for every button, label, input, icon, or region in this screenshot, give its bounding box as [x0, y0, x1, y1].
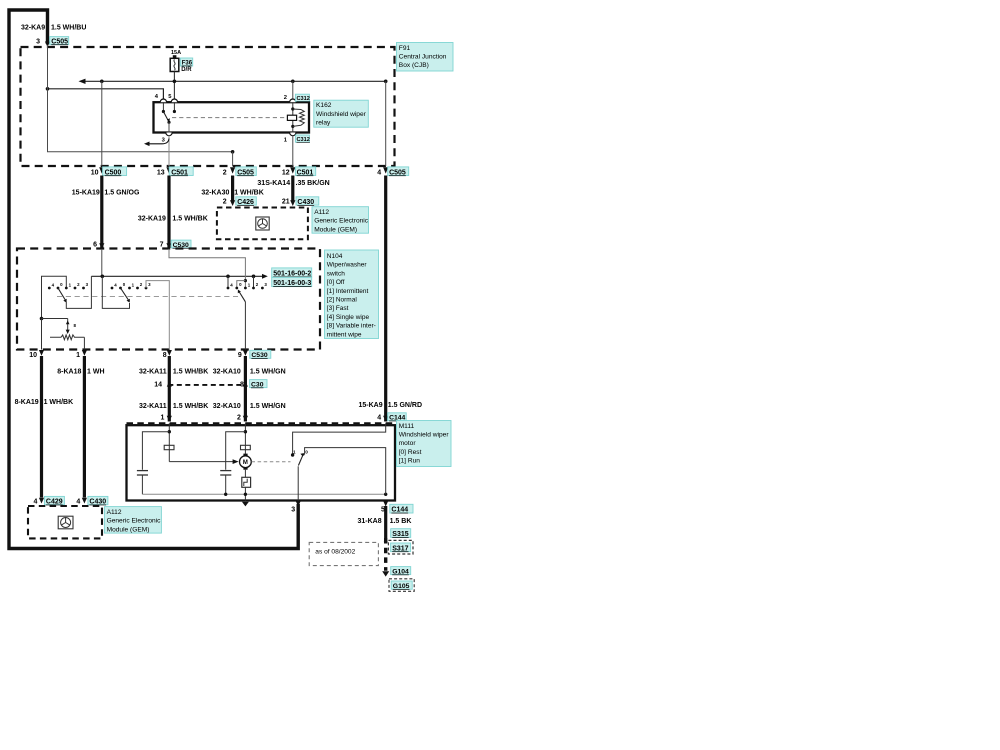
- relay mechanical link (dashed): [172, 117, 287, 119]
- wire bus to relay pin 2: [292, 81, 294, 102]
- svg-text:15-KA19: 15-KA19: [72, 189, 100, 196]
- connector C430 pin 4: [82, 498, 87, 504]
- connector C530 pin 6: [99, 243, 104, 249]
- svg-text:12: 12: [282, 169, 290, 176]
- svg-text:1 WH/BK: 1 WH/BK: [44, 399, 74, 406]
- svg-text:[4] Single wipe: [4] Single wipe: [327, 314, 370, 321]
- svg-text:8-KA18: 8-KA18: [57, 368, 81, 375]
- wire 8-KA18 1 WH (switch pin 1 to GEM C430): [83, 356, 86, 498]
- generic electronic module A112 box (lower, dashed): [28, 506, 102, 538]
- svg-text:15-KA9: 15-KA9: [358, 402, 382, 409]
- svg-text:Windshield wiper: Windshield wiper: [399, 432, 450, 439]
- svg-text:32-KA10: 32-KA10: [213, 403, 241, 410]
- svg-text:21: 21: [282, 198, 290, 205]
- bus 2 from C505-3 to relay pin 4: [48, 89, 164, 102]
- svg-text:31S-KA14: 31S-KA14: [257, 180, 290, 187]
- svg-text:C501: C501: [297, 169, 314, 176]
- wire pin 7 to right switch positions 0/1: [169, 249, 245, 288]
- svg-text:2: 2: [237, 414, 241, 421]
- svg-text:M: M: [243, 460, 248, 466]
- motor pin 4 internal to park switch: [293, 423, 386, 455]
- svg-text:4: 4: [377, 414, 381, 421]
- svg-text:501-16-00-2: 501-16-00-2: [273, 271, 311, 278]
- svg-text:switch: switch: [327, 270, 345, 277]
- svg-text:32-KA10: 32-KA10: [213, 368, 241, 375]
- svg-text:1.5 WH/GN: 1.5 WH/GN: [250, 368, 286, 375]
- svg-text:G104: G104: [392, 569, 409, 576]
- svg-text:D/R: D/R: [181, 67, 192, 73]
- generic electronic module A112 box (upper, dashed): [217, 208, 308, 240]
- bus from fuse (left off-page arrow): [85, 80, 386, 82]
- relay pin cups: [160, 99, 166, 102]
- left switch section (washer): [42, 276, 67, 318]
- relay coil: [292, 102, 294, 132]
- svg-text:8: 8: [240, 381, 244, 388]
- in-line connector C30 pins 14 and 8: [168, 384, 246, 386]
- svg-text:C501: C501: [171, 169, 188, 176]
- svg-text:[1] Run: [1] Run: [399, 458, 421, 465]
- svg-text:10: 10: [29, 352, 37, 359]
- svg-text:C505: C505: [51, 38, 68, 45]
- wire 32-KA9 main feed loop (thick frame): [9, 10, 298, 549]
- svg-text:1.5 BK: 1.5 BK: [390, 518, 412, 525]
- wire relay pin3 to C501-13: [168, 136, 170, 167]
- svg-text:[3] Fast: [3] Fast: [327, 305, 349, 312]
- motor case ground: [242, 502, 249, 507]
- svg-text:Module (GEM): Module (GEM): [314, 226, 357, 233]
- left switch arm: [58, 288, 65, 300]
- svg-text:9: 9: [238, 352, 242, 359]
- GEM internal symbol (lower): [58, 516, 73, 529]
- connector C426 pin 2: [230, 200, 235, 206]
- svg-text:4: 4: [377, 169, 381, 176]
- mechanical link between switch sections (dashed): [57, 296, 238, 298]
- svg-text:8-KA19: 8-KA19: [15, 399, 39, 406]
- middle switch section (wiper mode): [102, 276, 129, 308]
- svg-text:C430: C430: [297, 199, 314, 206]
- svg-text:1.5 WH/BK: 1.5 WH/BK: [173, 368, 208, 375]
- choke 2: [241, 445, 251, 449]
- svg-text:1.5 GN/RD: 1.5 GN/RD: [388, 402, 422, 409]
- svg-text:A112: A112: [107, 509, 122, 516]
- motor feed arrow: [169, 461, 233, 463]
- svg-text:14: 14: [154, 381, 162, 388]
- svg-text:32-KA30: 32-KA30: [201, 189, 229, 196]
- wire 15-KA19 1.5 GN/OG (C500-10 to switch pin 6): [100, 176, 103, 249]
- connector row arrows at CJB bottom: [99, 167, 104, 173]
- svg-text:S317: S317: [392, 545, 408, 552]
- mechanical link motor to park switch: [252, 461, 291, 463]
- svg-text:[0] Rest: [0] Rest: [399, 449, 422, 456]
- svg-text:relay: relay: [316, 120, 331, 127]
- svg-text:A112: A112: [314, 209, 329, 216]
- svg-text:Windshield wiper: Windshield wiper: [316, 111, 367, 118]
- svg-text:M111: M111: [399, 423, 415, 430]
- svg-text:F91: F91: [399, 45, 411, 52]
- connector C530 pin 7: [166, 243, 171, 249]
- svg-text:2: 2: [284, 95, 287, 101]
- wire 32-KA11 1.5 WH/BK (switch pin 8 to motor pin 1): [168, 356, 171, 422]
- svg-text:C426: C426: [237, 199, 254, 206]
- svg-text:[0] Off: [0] Off: [327, 279, 345, 286]
- svg-text:8: 8: [163, 352, 167, 359]
- svg-text:C312: C312: [297, 137, 310, 143]
- relay coil core: [287, 115, 296, 120]
- off-page reference links: [272, 268, 312, 277]
- svg-text:N104: N104: [327, 253, 343, 260]
- svg-text:1: 1: [160, 414, 164, 421]
- svg-text:C430: C430: [89, 499, 106, 506]
- svg-text:C144: C144: [391, 507, 408, 514]
- svg-text:1.5 GN/OG: 1.5 GN/OG: [104, 189, 140, 196]
- capacitor 1: [137, 470, 148, 472]
- central junction box F91 (dashed): [21, 47, 395, 166]
- svg-text:S315: S315: [392, 531, 408, 538]
- svg-text:K162: K162: [316, 102, 332, 109]
- park switch arm to pin 3: [297, 466, 299, 500]
- svg-text:1.5 WH/BU: 1.5 WH/BU: [51, 25, 86, 32]
- svg-text:2: 2: [223, 198, 227, 205]
- svg-text:[2] Normal: [2] Normal: [327, 297, 358, 304]
- wire 32-KA10 1.5 WH/GN (switch pin 9 to motor pin 2): [244, 356, 247, 422]
- label M111 Windshield wiper motor: [397, 421, 452, 467]
- svg-text:1 WH/BK: 1 WH/BK: [234, 189, 264, 196]
- wire bus junction to C505-4: [385, 81, 387, 166]
- splice S317 (as of 08/2002): [388, 540, 413, 554]
- connector C429 pin 4: [39, 498, 44, 504]
- connector C430 pin 21: [290, 200, 295, 206]
- motor internal ground rail: [142, 493, 385, 495]
- off-page arrow from relay pin 3: [148, 139, 169, 144]
- wire right switch arm to pin 9: [244, 302, 246, 350]
- svg-text:1.5 WH/BK: 1.5 WH/BK: [173, 403, 208, 410]
- label K162 Windshield wiper relay: [314, 100, 369, 127]
- label F91 Central Junction Box (CJB): [397, 43, 454, 72]
- svg-text:Box (CJB): Box (CJB): [399, 62, 429, 69]
- wire middle switch position 3 to pin 8: [146, 281, 169, 350]
- svg-text:1.5 WH/BK: 1.5 WH/BK: [172, 215, 207, 222]
- wire fuse to relay pin 5: [173, 72, 175, 103]
- svg-text:C312: C312: [297, 96, 310, 102]
- svg-text:1: 1: [76, 352, 80, 359]
- motor pin 1 internal branch: [168, 423, 170, 461]
- junction dots on bus: [100, 80, 104, 84]
- windshield wiper motor M111 box: [127, 425, 396, 500]
- svg-text:[1] Intermittent: [1] Intermittent: [327, 288, 369, 295]
- svg-text:2: 2: [223, 169, 227, 176]
- wire 15-KA9 1.5 GN/RD (C505-4 to motor pin 4): [384, 176, 387, 422]
- svg-text:motor: motor: [399, 440, 417, 447]
- switch bottom connector arrows: [39, 350, 44, 356]
- variable resistor (intermittent delay): [40, 317, 44, 321]
- svg-text:13: 13: [157, 169, 165, 176]
- svg-text:Central Junction: Central Junction: [399, 54, 447, 61]
- wire 31S-KA14 .35 BK/GN (C501-12 to GEM C430-21): [291, 176, 294, 202]
- relay contacts: [162, 102, 164, 111]
- motor M: [243, 454, 247, 457]
- svg-text:3: 3: [291, 507, 295, 514]
- svg-text:32-KA19: 32-KA19: [138, 215, 166, 222]
- choke 1: [164, 445, 174, 449]
- svg-text:Generic Electronic: Generic Electronic: [107, 518, 162, 525]
- svg-text:Wiper/washer: Wiper/washer: [327, 262, 368, 269]
- ground wire dashed section: [384, 538, 387, 571]
- svg-text:10: 10: [91, 169, 99, 176]
- svg-text:6: 6: [93, 241, 97, 248]
- label A112 Generic Electronic Module (GEM) upper: [312, 207, 369, 234]
- wire C505-3 down and across to C505-2: [48, 45, 233, 152]
- wire 31-KA8 1.5 BK (motor pin 5 to ground): [384, 506, 387, 538]
- wire 32-KA19 1.5 WH/BK (C501-13 to switch pin 7): [167, 176, 170, 249]
- label A112 Generic Electronic Module (GEM) lower: [104, 507, 161, 533]
- svg-text:Module (GEM): Module (GEM): [107, 526, 150, 533]
- connector C144 pins 3 and 5: [296, 501, 301, 507]
- middle switch arm: [121, 288, 129, 300]
- svg-text:C505: C505: [237, 169, 254, 176]
- svg-text:G105: G105: [393, 583, 410, 590]
- svg-text:32-KA11: 32-KA11: [139, 368, 167, 375]
- note box: as of 08/2002: [309, 542, 378, 565]
- relay armature: [163, 112, 168, 121]
- relay K162 box: [154, 102, 310, 132]
- wire 8-KA19 1 WH/BK (switch pin 10 to GEM C429): [40, 356, 43, 498]
- svg-text:4: 4: [76, 499, 80, 506]
- relay connector C312 labels: [295, 94, 309, 101]
- connector C144 pin 4: [383, 416, 388, 422]
- svg-text:C429: C429: [46, 499, 63, 506]
- svg-text:C30: C30: [251, 382, 264, 389]
- GEM internal symbol: [256, 217, 269, 230]
- svg-text:C500: C500: [105, 169, 122, 176]
- right switch section (intermittent): [227, 276, 229, 288]
- svg-text:3: 3: [36, 39, 40, 46]
- motor connector arrows pins 1 2: [167, 416, 172, 422]
- svg-text:7: 7: [160, 241, 164, 248]
- svg-text:4: 4: [33, 499, 37, 506]
- svg-text:[8] Variable inter-: [8] Variable inter-: [327, 323, 376, 330]
- svg-text:1.5 WH/GN: 1.5 WH/GN: [250, 403, 286, 410]
- wiper/washer switch N104 box (dashed): [17, 249, 320, 350]
- splice S315: [391, 529, 411, 538]
- svg-text:501-16-00-3: 501-16-00-3: [273, 280, 311, 287]
- motor connector dashed row: [127, 422, 396, 424]
- motor pin 2 internal branch: [244, 423, 246, 454]
- switch common rail: [91, 275, 262, 277]
- svg-text:as of 08/2002: as of 08/2002: [315, 549, 355, 556]
- label N104 Wiper/washer switch: [325, 250, 379, 339]
- svg-text:F36: F36: [182, 61, 193, 67]
- svg-text:.35 BK/GN: .35 BK/GN: [296, 180, 330, 187]
- wire pin 6 into switch: [101, 249, 103, 276]
- svg-text:Generic Electronic: Generic Electronic: [314, 218, 369, 225]
- svg-text:31-KA8: 31-KA8: [357, 518, 381, 525]
- ground G104: [382, 571, 389, 576]
- right switch arm: [239, 292, 245, 302]
- svg-text:1 WH: 1 WH: [87, 368, 105, 375]
- svg-text:C505: C505: [389, 169, 406, 176]
- svg-text:32-KA9: 32-KA9: [21, 25, 45, 32]
- wire bus to C500-10: [101, 81, 103, 166]
- svg-text:32-KA11: 32-KA11: [139, 403, 167, 410]
- svg-text:C530: C530: [251, 352, 267, 359]
- svg-text:mittent wipe: mittent wipe: [327, 331, 362, 338]
- thermal protector: [244, 470, 246, 478]
- wire relay pin1 to C501-12: [292, 136, 294, 167]
- ground G105 (alternate): [389, 579, 414, 592]
- capacitor 2: [220, 470, 231, 472]
- wire 32-KA30 1 WH/BK (C505-2 to GEM C426-2): [231, 176, 234, 202]
